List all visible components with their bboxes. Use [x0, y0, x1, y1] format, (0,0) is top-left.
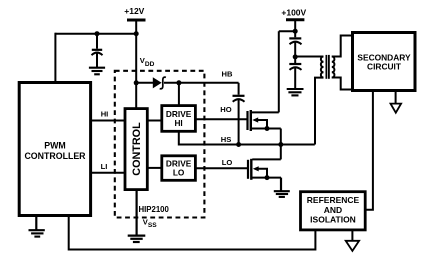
wire DRIVE HI bottom to HS rail	[179, 131, 315, 144]
svg-text:HI: HI	[174, 118, 182, 128]
wire diode to HB cap	[164, 82, 239, 84]
+100V rail bar	[286, 18, 304, 21]
svg-text:CONTROL: CONTROL	[131, 122, 143, 176]
capacitor C1 (12V bypass)	[92, 34, 103, 67]
svg-text:LO: LO	[173, 168, 185, 178]
svg-text:CONTROLLER: CONTROLLER	[24, 151, 86, 161]
svg-text:CIRCUIT: CIRCUIT	[367, 62, 402, 72]
wire +100V to Q1 drain branch	[279, 30, 295, 32]
drive hi block	[162, 106, 196, 132]
secondary circuit block	[353, 33, 416, 91]
ground (C1)	[89, 68, 105, 75]
node bypass cap junction	[95, 31, 100, 36]
diode D1 (schottky bootstrap)	[153, 77, 166, 89]
node DRIVE HI top junction	[176, 80, 181, 85]
chassis ground (reference block)	[346, 230, 359, 251]
svg-text:+100V: +100V	[281, 8, 306, 18]
svg-text:LO: LO	[222, 158, 233, 167]
chassis ground (secondary circuit)	[391, 91, 402, 113]
wire HB rail (diode output)	[136, 82, 153, 84]
wire down to PWM top	[54, 33, 56, 83]
wire secondary top to secondary circuit	[332, 36, 353, 57]
svg-text:AND: AND	[324, 205, 342, 215]
ground (divider)	[287, 89, 304, 95]
wire PWM bottom feedback run	[69, 216, 316, 250]
wire HI	[91, 120, 126, 122]
wire primary bottom to HS	[315, 78, 324, 145]
wire secondary bottom to secondary circuit	[332, 78, 353, 90]
capacitor C4 (lower divider)	[289, 57, 301, 89]
wire CONTROL bottom to VSS ground	[136, 190, 138, 235]
capacitor C2 (bootstrap HB-HS)	[233, 83, 245, 145]
svg-text:PWM: PWM	[44, 140, 66, 150]
wire LI	[91, 172, 126, 174]
wire secondary circuit to reference/isolation	[365, 91, 373, 210]
wire CONTROL to DRIVE HI	[147, 120, 162, 122]
node VDD/diode junction	[134, 80, 139, 85]
svg-text:REFERENCE: REFERENCE	[307, 195, 360, 205]
PWM controller U1	[19, 83, 90, 216]
ground (VSS)	[128, 236, 146, 242]
HIP2100 dashed boundary	[115, 71, 205, 218]
wire +100V down	[294, 20, 296, 38]
transformer T1 secondary winding	[332, 57, 335, 78]
+12V rail bar	[127, 19, 146, 22]
svg-text:+12V: +12V	[124, 6, 144, 16]
svg-text:LI: LI	[101, 162, 108, 171]
wire LO (DRIVE LO out to Q2 gate)	[195, 167, 248, 169]
wire Q2 source to ground	[280, 178, 282, 191]
wire Q1 source to HS	[280, 129, 282, 145]
node +100V junction	[293, 29, 298, 34]
transistor Q2 (low-side MOSFET)	[248, 159, 281, 180]
ground (Q2 source)	[274, 191, 290, 197]
transformer T1 core	[326, 55, 329, 79]
node divider midpoint	[293, 54, 298, 59]
transformer T1 primary winding	[321, 57, 324, 78]
wire Q2 drain up to HS	[280, 145, 282, 160]
reference and isolation block	[301, 192, 366, 230]
svg-text:HB: HB	[222, 70, 233, 79]
svg-text:ISOLATION: ISOLATION	[310, 215, 356, 225]
wire to DRIVE HI top	[178, 83, 180, 106]
capacitor C3 (upper divider)	[289, 38, 301, 57]
wire CONTROL to DRIVE LO	[147, 167, 162, 169]
svg-text:HS: HS	[221, 135, 232, 144]
wire midpoint to transformer primary	[295, 56, 323, 58]
drive lo block	[162, 156, 196, 181]
svg-text:HO: HO	[220, 105, 231, 114]
wire Q1 drain to +100V	[278, 31, 280, 112]
node +12V junction	[134, 31, 139, 36]
svg-text:HI: HI	[101, 110, 109, 119]
transistor Q1 (high-side MOSFET)	[248, 110, 281, 131]
node bootstrap/HS junction	[236, 142, 241, 147]
wire top-left horizontal	[55, 33, 136, 35]
ground (PWM)	[29, 216, 45, 237]
node Q1 source / HS junction	[278, 142, 283, 147]
wire HO (DRIVE HI out to Q1 gate)	[195, 118, 247, 120]
control block	[125, 109, 147, 190]
svg-text:HIP2100: HIP2100	[139, 205, 170, 214]
wire VDD vertical from +12V to CONTROL	[135, 20, 137, 109]
